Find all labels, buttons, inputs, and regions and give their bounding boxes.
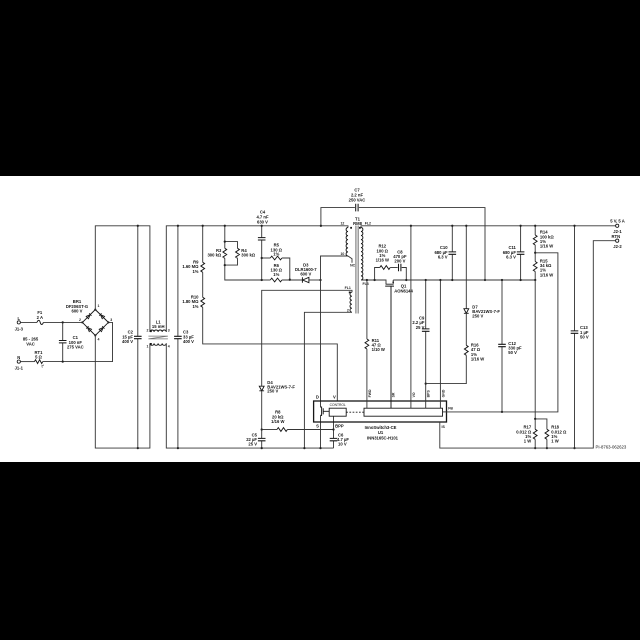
junction R5-R6 right node xyxy=(289,279,291,281)
wire DC+ top rail right segment (L1 pin3 up, right to T1 pin 12) xyxy=(166,226,348,332)
svg-text:2 A: 2 A xyxy=(37,315,43,320)
capacitor C12 330 pF 50 V FB xyxy=(498,280,522,412)
svg-text:J1-3: J1-3 xyxy=(15,326,24,331)
junction R11 on FL3 node xyxy=(366,279,368,281)
resistor R4 300 kohm clamp xyxy=(225,248,262,280)
terminal J2-1 (5V output) xyxy=(610,218,625,234)
svg-text:5 V, 5 A: 5 V, 5 A xyxy=(610,218,625,223)
wire BPP pin down xyxy=(333,416,335,438)
wire L line from fuse to bridge pin 2 xyxy=(43,321,82,323)
svg-text:VO: VO xyxy=(412,392,416,397)
wire bias FL1 to D4 xyxy=(262,290,352,386)
junction R17 on RTN rail xyxy=(534,447,536,449)
svg-text:FL2: FL2 xyxy=(365,222,371,226)
transformer T1 RM8 core xyxy=(353,217,363,314)
capacitor C9 2.2 uF 25 V BPS xyxy=(412,280,429,408)
transformer T1 primary NC stub xyxy=(348,256,356,268)
transformer T1 secondary winding FL2-FL3 xyxy=(359,222,371,286)
junction C1 top on L line xyxy=(62,321,64,323)
IC internal power MOSFET xyxy=(321,407,330,417)
terminal J2-2 (RTN) xyxy=(611,234,622,249)
junction R6 left node xyxy=(261,279,263,281)
junction bias return on GND rail xyxy=(303,447,305,449)
wire bias winding return pin2 to primary GND xyxy=(304,312,352,448)
junction bridge vertices xyxy=(81,321,83,323)
capacitor C7 2.2 nF 250 VAC Y-cap xyxy=(321,188,485,281)
junction BPS line on GND bus xyxy=(425,279,427,281)
svg-text:5 Ω: 5 Ω xyxy=(35,354,42,359)
svg-text:S: S xyxy=(316,424,319,429)
svg-text:10: 10 xyxy=(340,252,344,256)
capacitor C6 4.7 uF 10 V BPP xyxy=(330,433,350,449)
svg-text:3: 3 xyxy=(168,329,170,333)
resistor R3 300 kohm clamp xyxy=(207,226,237,258)
svg-text:FWD: FWD xyxy=(368,389,372,397)
IC FB pin stub xyxy=(443,411,447,413)
junction C13 top on +5V rail xyxy=(573,225,575,227)
resistor R5 130 ohm clamp xyxy=(262,243,290,280)
diode D4 BAV21WS-7-F 250 V bias rectifier xyxy=(259,380,295,429)
svg-text:2: 2 xyxy=(79,318,81,322)
wire line-sense run from R10 to V pin xyxy=(203,307,338,401)
svg-text:CONTROL: CONTROL xyxy=(330,403,346,407)
junction R8/BPP/C6 node xyxy=(332,428,334,430)
svg-text:400 V: 400 V xyxy=(122,339,133,344)
common mode choke L1 15 mH xyxy=(147,319,170,348)
svg-text:25 V: 25 V xyxy=(416,325,425,330)
bridge rectifier BR1 DF206ST-G 600 V xyxy=(66,299,112,342)
fuse F1 2 A xyxy=(37,310,44,324)
svg-text:300 kΩ: 300 kΩ xyxy=(241,253,255,258)
transformer T1 bias winding FL1-2 xyxy=(345,286,352,312)
svg-text:1: 1 xyxy=(147,344,149,348)
IC internal secondary controller bar xyxy=(364,408,443,416)
junction C2 bottom xyxy=(137,447,139,449)
IC internal dashed link xyxy=(346,411,364,413)
junction shunt tee xyxy=(534,418,536,420)
resistor R11 47 ohm FWD series xyxy=(365,280,385,408)
capacitor C13 1 uF 50 V output xyxy=(571,226,589,448)
junction C3 bottom xyxy=(177,447,179,449)
junction snubber right on source node xyxy=(405,279,407,281)
junction VO on +5V rail xyxy=(410,225,412,227)
svg-text:RM8: RM8 xyxy=(353,221,363,226)
terminal J1-1 (N input) xyxy=(15,355,24,370)
junction GND bus to shunt feed xyxy=(534,279,536,281)
junction R9 top on rail xyxy=(202,225,204,227)
capacitor C11 680 uF 6.3 V output xyxy=(503,226,525,280)
junction C5 on GND rail xyxy=(261,447,263,449)
svg-text:1%: 1% xyxy=(192,269,198,274)
junction C7 on secondary GND bus xyxy=(484,279,486,281)
svg-text:1/16 W: 1/16 W xyxy=(271,419,284,424)
junction FB divider tap xyxy=(534,252,536,254)
junction R3R4 bottom node xyxy=(224,264,226,266)
svg-text:GND: GND xyxy=(441,389,445,397)
junction C2 top xyxy=(137,225,139,227)
svg-text:FL1: FL1 xyxy=(345,286,351,290)
capacitor C2 15 uF 400 V xyxy=(122,226,142,448)
junction R14 top on +5V rail xyxy=(534,225,536,227)
svg-text:V: V xyxy=(333,394,336,399)
junction R3R4 top node xyxy=(224,240,226,242)
wire DC- bottom rail left segment (bridge pin4 down, right to L1 pin 1) xyxy=(95,335,150,448)
svg-text:RTN: RTN xyxy=(611,234,620,239)
snubber resistor R12 100 ohm xyxy=(375,244,398,280)
svg-text:INN3165C-H101: INN3165C-H101 xyxy=(367,435,399,440)
resistor R18 0.012 ohm shunt xyxy=(545,425,567,449)
svg-text:N: N xyxy=(17,355,20,360)
wire between R9 and R10 xyxy=(202,272,204,297)
junction C4 top on rail xyxy=(261,225,263,227)
svg-text:250 VAC: 250 VAC xyxy=(349,198,366,203)
wire S pin to primary GND rail xyxy=(320,415,322,448)
svg-text:L: L xyxy=(18,316,21,321)
svg-text:1 W: 1 W xyxy=(551,439,558,444)
svg-text:FL3: FL3 xyxy=(363,282,369,286)
svg-text:1%: 1% xyxy=(273,272,279,277)
junction R18 on RTN rail xyxy=(546,447,548,449)
junction C12 on FB line xyxy=(501,411,503,413)
resistor R14 100 kohm FB divider upper xyxy=(533,226,554,253)
svg-text:1/16 W: 1/16 W xyxy=(376,258,389,263)
wire GND bus down to current shunt tee xyxy=(535,280,547,429)
junction D7 top on +5V rail xyxy=(465,225,467,227)
transformer T1 primary winding pins 12-10 xyxy=(340,222,352,257)
svg-text:1/16 W: 1/16 W xyxy=(540,272,553,277)
IC internal CONTROL block xyxy=(329,403,346,416)
wire secondary +5V rail FL2 to J2-1 xyxy=(361,226,616,228)
svg-text:250 V: 250 V xyxy=(472,313,483,318)
resistor R10 1.80 Mohm line sense xyxy=(182,295,204,309)
svg-text:1/10 W: 1/10 W xyxy=(372,347,385,352)
wire IS pin to output RTN rail and up to J2-2 xyxy=(440,241,616,448)
resistor R6 130 ohm clamp xyxy=(262,263,303,282)
junction D3 to drain node xyxy=(319,279,321,281)
capacitor C5 22 uF 25 V bias xyxy=(246,430,265,449)
IC U1 InnoSwitch3-CE INN3165C-H101 outer box xyxy=(314,401,447,440)
junction C10 top xyxy=(451,225,453,227)
svg-text:600 V: 600 V xyxy=(300,272,311,277)
junction S pin on GND rail xyxy=(319,447,321,449)
svg-text:BPP: BPP xyxy=(335,424,344,429)
junction C3 top xyxy=(177,225,179,227)
svg-text:12: 12 xyxy=(340,222,344,226)
junction R3R4 on rail xyxy=(224,225,226,227)
svg-text:1/16 W: 1/16 W xyxy=(471,357,484,362)
svg-text:1 W: 1 W xyxy=(524,439,531,444)
junction R5 left node xyxy=(261,257,263,259)
svg-text:300 kΩ: 300 kΩ xyxy=(207,253,221,258)
SR FET Q1 AON6144 xyxy=(385,280,413,408)
capacitor C3 33 uF 400 V xyxy=(174,226,194,448)
junction C11 bottom xyxy=(519,279,521,281)
svg-text:10 V: 10 V xyxy=(338,441,347,446)
svg-text:PI-8763-062623: PI-8763-062623 xyxy=(596,445,627,450)
junction D4/R8/C5 node xyxy=(261,428,263,430)
svg-text:50 V: 50 V xyxy=(580,335,589,340)
junction R16 feed on BPS line xyxy=(425,382,427,384)
svg-text:NC: NC xyxy=(350,264,356,268)
label 85 - 265 VAC xyxy=(23,337,39,347)
svg-text:3: 3 xyxy=(110,318,112,322)
snubber capacitor C8 470 pF 200 V xyxy=(393,249,407,280)
wire GND pin to GND bus xyxy=(439,280,441,408)
svg-text:1/16 W: 1/16 W xyxy=(540,244,553,249)
capacitor C1 100 nF 275 VAC xyxy=(59,322,84,361)
junction C1 bottom on N line xyxy=(62,360,64,362)
svg-text:4: 4 xyxy=(98,338,100,342)
resistor R8 20 kohm BPP feed xyxy=(262,410,334,432)
svg-text:SR: SR xyxy=(391,392,395,397)
svg-text:2: 2 xyxy=(147,329,149,333)
diode D7 BAV21WS-7-F 250 V FB feed xyxy=(464,226,500,345)
wire DC+ top rail left segment (bridge pin1 up, right to L1 pin 2) xyxy=(95,226,150,332)
junction C7 tap on primary rail xyxy=(320,225,322,227)
junction C13 bottom on RTN rail xyxy=(573,447,575,449)
svg-text:1: 1 xyxy=(98,304,100,308)
top black band xyxy=(0,0,640,176)
wire FB tap to IC FB pin xyxy=(447,253,558,412)
wire L line from J1-3 to fuse xyxy=(20,321,37,323)
svg-text:6.3 V: 6.3 V xyxy=(438,255,448,260)
terminal J1-3 (L input) xyxy=(15,316,24,331)
svg-text:275 VAC: 275 VAC xyxy=(67,345,84,350)
svg-text:6.3 V: 6.3 V xyxy=(506,255,516,260)
wire DC- bottom rail right segment (L1 pin4 down, right to C6) xyxy=(166,343,333,448)
wire VO pin to +5V rail xyxy=(410,226,412,408)
resistor R17 0.012 ohm shunt xyxy=(516,419,537,448)
junction C11 top xyxy=(519,225,521,227)
wire drain node: T1 pin10 left, down to InnoSwitch D pin xyxy=(321,256,349,407)
svg-text:25 V: 25 V xyxy=(248,441,257,446)
svg-text:D: D xyxy=(316,394,319,399)
svg-text:J2-2: J2-2 xyxy=(613,244,622,249)
svg-text:1%: 1% xyxy=(192,304,198,309)
svg-text:J1-1: J1-1 xyxy=(15,366,24,371)
svg-text:15 mH: 15 mH xyxy=(152,324,165,329)
svg-text:50 V: 50 V xyxy=(508,350,517,355)
wire FL3 node to Q1 drain xyxy=(361,280,386,284)
wire N line from RT1 to bridge pin 3 riser xyxy=(43,322,113,361)
wire secondary GND bus from Q1 source to R15 bottom xyxy=(393,279,535,281)
svg-text:FB: FB xyxy=(448,406,453,410)
junction C12 top on GND bus xyxy=(501,279,503,281)
capacitor C4 4.7 nF 630 V clamp xyxy=(256,209,269,280)
capacitor C10 680 uF 6.3 V output xyxy=(434,226,456,280)
svg-text:4: 4 xyxy=(168,344,170,348)
diode D3 DLR1600-7 600 V clamp blocking xyxy=(295,262,321,282)
svg-text:VAC: VAC xyxy=(26,342,35,347)
svg-text:U1: U1 xyxy=(378,430,384,435)
junction snubber left on FL3 node xyxy=(373,279,375,281)
resistor R15 34 kohm FB divider lower xyxy=(533,253,553,280)
junction C10 bottom xyxy=(451,279,453,281)
wire N line from J1-1 to RT1 xyxy=(20,361,34,363)
svg-text:600 V: 600 V xyxy=(72,309,83,314)
svg-text:630 V: 630 V xyxy=(257,219,268,224)
junction GND pin on GND bus xyxy=(439,279,441,281)
svg-text:1%: 1% xyxy=(273,252,279,257)
svg-text:250 V: 250 V xyxy=(267,389,278,394)
thermistor RT1 5 ohm xyxy=(35,350,45,369)
svg-text:200 V: 200 V xyxy=(394,259,405,264)
svg-text:400 V: 400 V xyxy=(183,339,194,344)
bottom black band xyxy=(0,462,640,640)
svg-text:2: 2 xyxy=(347,308,349,312)
svg-text:BPS: BPS xyxy=(426,390,430,398)
resistor R9 1.60 Mohm line sense xyxy=(182,226,204,274)
resistor R16 47 ohm xyxy=(426,342,485,383)
